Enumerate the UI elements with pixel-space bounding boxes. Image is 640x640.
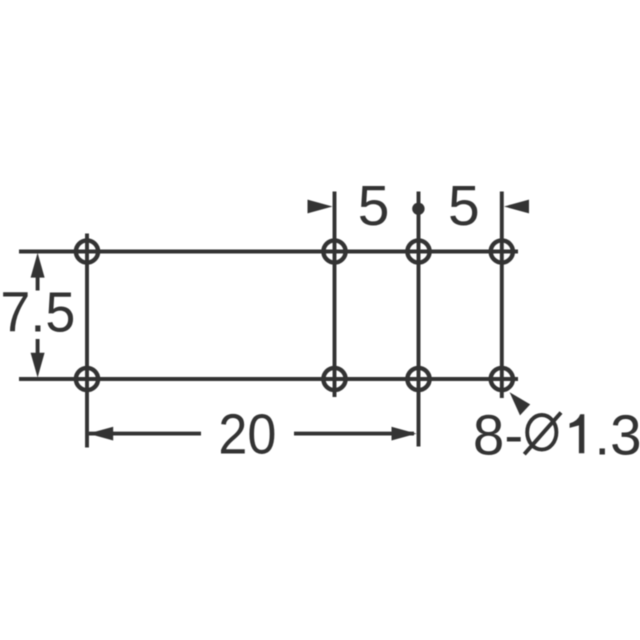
wire row line top: [19, 250, 518, 254]
hole H4 top-right: [491, 240, 513, 262]
diameter symbol slash: [524, 413, 561, 455]
hole H8 bottom-right: [491, 368, 513, 390]
digit 1 of 1.3 (custom glyph): [570, 414, 585, 453]
hole H7 bottom row third: [407, 368, 429, 390]
wire column line 1: [85, 234, 89, 448]
dimension 20 line right segment: [294, 432, 414, 436]
svg-text:5: 5: [448, 174, 480, 238]
svg-text:20: 20: [218, 402, 276, 465]
wire column line 3: [417, 192, 421, 447]
dimension 7.5 up arrowhead: [31, 253, 45, 278]
wire column line 2: [333, 192, 337, 398]
dimension 7.5 lower tail: [36, 339, 40, 354]
dimension 20 line left segment: [89, 432, 201, 436]
hole H1 top-left: [76, 240, 98, 262]
svg-text:8-: 8-: [473, 403, 523, 466]
dimension 20 right arrowhead: [392, 427, 417, 441]
diameter symbol circle: [527, 415, 556, 450]
hole H3 top row third: [407, 240, 429, 262]
svg-text:7.5: 7.5: [0, 281, 75, 344]
hole H6 bottom row second: [323, 368, 345, 390]
leader arrowhead to hole H8: [510, 392, 531, 415]
wire column line 4: [500, 192, 504, 399]
wire row line bottom: [19, 377, 518, 381]
hole H2 top row second: [323, 240, 345, 262]
dimension 5 left arrowhead: [308, 200, 333, 214]
dimension 7.5 down arrowhead: [31, 353, 45, 378]
dimension 5 right arrowhead: [504, 200, 529, 214]
dimension 7.5 upper tail: [36, 276, 40, 291]
svg-text:5: 5: [358, 174, 390, 238]
svg-text:.3: .3: [594, 403, 640, 466]
dimension 20 left arrowhead: [88, 427, 113, 441]
hole H5 bottom-left: [76, 368, 98, 390]
dimension 5 middle dot: [412, 203, 424, 215]
